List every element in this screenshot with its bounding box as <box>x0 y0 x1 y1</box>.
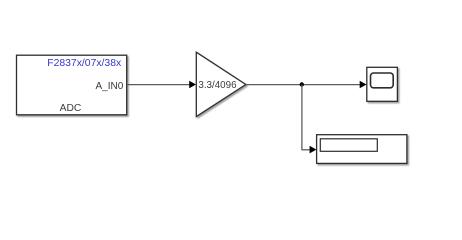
arrowhead into scope <box>360 81 367 89</box>
wire branch down segment <box>301 85 303 151</box>
scope screen icon <box>371 73 394 88</box>
display value field rectangle <box>320 139 377 152</box>
display block (Display) <box>317 135 407 164</box>
ADC block U1 (F2837x/07x/38x ADC) <box>17 55 127 115</box>
wire branch right segment into display <box>302 149 311 151</box>
gain block K1 (3.3/4096) <box>196 52 246 116</box>
svg-text:ADC: ADC <box>60 103 82 114</box>
wire ADC A_IN0 -> gain K1 <box>127 84 190 86</box>
wire gain K1 -> scope <box>246 84 360 86</box>
svg-text:3.3/4096: 3.3/4096 <box>198 80 237 91</box>
svg-text:F2837x/07x/38x: F2837x/07x/38x <box>47 58 122 69</box>
arrowhead into display <box>310 146 317 154</box>
scope block (Scope) <box>367 67 398 101</box>
svg-text:A_IN0: A_IN0 <box>96 81 124 92</box>
branch node junction dot <box>300 82 304 86</box>
arrowhead into gain K1 <box>189 81 196 89</box>
